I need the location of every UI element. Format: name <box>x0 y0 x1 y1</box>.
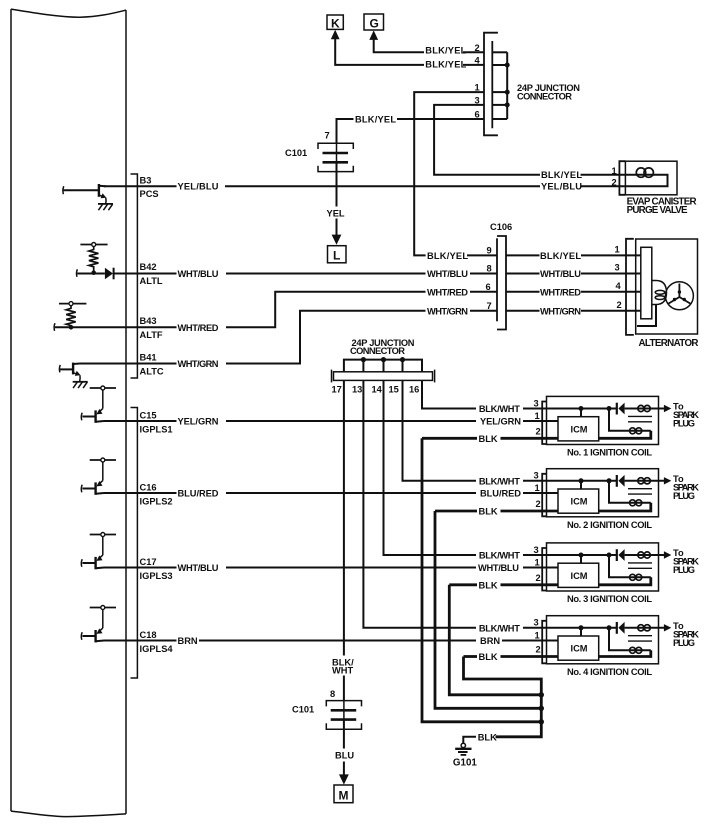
internal supply rail with node circle (B42 pull-up) <box>80 243 107 247</box>
label To SPARK PLUG (No.3) <box>673 548 699 575</box>
label To SPARK PLUG (No.1) <box>673 402 699 429</box>
svg-text:1: 1 <box>535 411 540 421</box>
svg-text:ICM: ICM <box>571 571 588 581</box>
svg-text:IGPLS2: IGPLS2 <box>140 497 173 507</box>
No.4 ignition coil box <box>547 616 659 664</box>
node junction dot (R2 to B43 row) <box>69 325 74 330</box>
wire BLK to ground G101 <box>463 732 497 743</box>
svg-text:C101: C101 <box>292 705 314 715</box>
diode D (No.2 coil) <box>617 475 625 487</box>
wire C18 BRN row (to No.4 coil pin 1) <box>104 636 558 646</box>
No.1 coil connector bracket <box>542 402 546 445</box>
svg-text:7: 7 <box>487 301 492 311</box>
wire to spark plug + arrow (No.2) <box>625 477 672 484</box>
wire C106 pin 7 to alternator pin 2 (WHT/GRN) <box>506 306 641 316</box>
junction dot (bus pin 1) <box>505 90 510 95</box>
svg-text:WHT/GRN: WHT/GRN <box>427 306 468 316</box>
svg-text:3: 3 <box>534 471 539 481</box>
wire junction pin 16 (down, BLK/WHT to No.1 coil pin 3) <box>422 380 476 408</box>
svg-text:M: M <box>339 789 349 803</box>
wire C106 pin 9 to alternator pin 1 (BLK/YEL) <box>506 251 641 261</box>
label To SPARK PLUG (No.4) <box>673 621 699 648</box>
svg-text:BLK: BLK <box>479 580 498 590</box>
wire B3 YEL/BLU row (to EVAP pin 2) <box>104 182 625 192</box>
wire junction pin 13 (down, BLK/WHT to No.4 coil pin 3) <box>363 380 476 627</box>
wire B43 WHT/RED (up and over to C106 pin 6) <box>137 287 497 333</box>
connector C106 outer half <box>497 236 506 330</box>
svg-text:IGPLS1: IGPLS1 <box>140 425 173 435</box>
wire G BLK/YEL (junction pin 2 to G) <box>374 37 484 56</box>
svg-text:BLU: BLU <box>335 751 354 761</box>
svg-text:YEL/GRN: YEL/GRN <box>480 417 521 427</box>
No.3 ignition coil box <box>547 543 659 591</box>
junction dot (bus, No.2 BLK) <box>539 706 544 711</box>
arrow into K <box>331 30 340 40</box>
label To SPARK PLUG (No.2) <box>673 474 699 501</box>
junction bus (top of bottom 24P connector) <box>344 360 422 372</box>
connector box K (to another sheet) <box>327 15 343 31</box>
svg-text:3: 3 <box>534 398 539 408</box>
alternator field coil (loops) <box>637 281 667 327</box>
svg-text:CONNECTOR: CONNECTOR <box>350 346 405 356</box>
No.4 coil connector bracket <box>542 621 546 664</box>
No.2 coil connector bracket <box>542 474 546 517</box>
ICM U2 (No.2 coil igniter) <box>558 489 599 513</box>
svg-text:ALTF: ALTF <box>140 330 163 340</box>
connector C101 (pin 8) symbol <box>326 701 361 730</box>
diode D (No.3 coil) <box>617 549 625 561</box>
wire junction pin 14 (down, BLK/WHT to No.3 coil pin 3) <box>384 380 477 555</box>
primary winding L1 (No.1 coil) <box>638 405 651 411</box>
svg-text:YEL/BLU: YEL/BLU <box>178 182 219 192</box>
ground symbol (inside ECM, at Q1 emitter) <box>98 204 113 210</box>
label EVAP CANISTER PURGE VALVE <box>627 197 697 217</box>
svg-text:G: G <box>370 17 379 31</box>
svg-text:2: 2 <box>617 300 622 310</box>
svg-text:2: 2 <box>536 645 541 655</box>
svg-text:2: 2 <box>612 177 617 187</box>
alternator box <box>636 239 698 334</box>
transistor Q1 (PCS driver, pin B3) <box>63 184 107 204</box>
pin B3 label <box>140 176 159 200</box>
svg-text:14: 14 <box>372 385 383 395</box>
secondary winding L2 (No.2 coil) <box>599 500 651 511</box>
internal supply rail with node circle (B43 pull-up) <box>59 302 86 306</box>
svg-text:PLUG: PLUG <box>673 491 695 501</box>
wire BLK No.2 coil pin 2 <box>435 507 558 517</box>
svg-text:15: 15 <box>389 385 399 395</box>
svg-text:YEL: YEL <box>327 209 345 219</box>
arrow into M <box>339 774 349 784</box>
svg-text:WHT/BLU: WHT/BLU <box>427 269 468 279</box>
svg-text:BLK: BLK <box>479 507 498 517</box>
svg-text:PURGE VALVE: PURGE VALVE <box>627 205 688 216</box>
wire C106 pin 8 to alternator pin 3 (WHT/BLU) <box>506 269 641 279</box>
wire BLK/WHT No.4 coil pin 3 <box>479 623 617 633</box>
wire BLK return No.1 coil (down to ground bus) <box>422 438 541 722</box>
svg-text:WHT/GRN: WHT/GRN <box>178 359 219 369</box>
svg-text:No. 3 IGNITION COIL: No. 3 IGNITION COIL <box>567 594 652 604</box>
diode D (No.4 coil) <box>617 622 625 634</box>
svg-text:YEL/BLU: YEL/BLU <box>541 182 582 192</box>
wire junction pin 6 (left, BLK/YEL to C101 pin 7) <box>337 115 485 144</box>
resistor R1 (ALTL pull-up) <box>89 247 99 273</box>
wire BLK No.4 coil pin 2 <box>464 652 559 662</box>
svg-text:PCS: PCS <box>140 189 159 199</box>
svg-text:BLK: BLK <box>479 434 498 444</box>
junction dot (bus stub 13) <box>361 357 366 362</box>
connector C101 (pin 7) symbol <box>318 143 353 171</box>
svg-text:ALTL: ALTL <box>140 276 163 286</box>
svg-text:WHT/RED: WHT/RED <box>540 287 581 297</box>
pin C18 label <box>140 630 174 654</box>
svg-text:2: 2 <box>536 499 541 509</box>
svg-text:C15: C15 <box>140 411 157 421</box>
junction internal bus (right side, pins 2-4-1-3-6 commoned) <box>492 52 507 119</box>
diode D (No.1 coil) <box>617 403 625 415</box>
svg-text:B3: B3 <box>140 176 152 186</box>
pin C17 label <box>140 557 173 581</box>
svg-text:BLU/RED: BLU/RED <box>178 489 219 499</box>
svg-text:3: 3 <box>615 263 620 273</box>
alternator internal regulator block <box>641 247 652 318</box>
wire to spark plug + arrow (No.3) <box>625 551 672 558</box>
wire YEL (C101 to L arrow) <box>327 162 345 235</box>
svg-text:No. 4 IGNITION COIL: No. 4 IGNITION COIL <box>567 667 652 677</box>
diode D1 (on B42/ALTL row) <box>105 268 114 280</box>
junction dot (bus pin 4) <box>505 63 510 68</box>
wire B42 row left tail with tick <box>76 269 104 277</box>
svg-text:ICM: ICM <box>571 424 588 434</box>
svg-text:IGPLS3: IGPLS3 <box>140 571 173 581</box>
pin B42 label <box>140 262 163 286</box>
ECM pin bracket (B-group B3..B41) <box>131 174 138 378</box>
svg-text:B41: B41 <box>140 352 157 362</box>
svg-text:K: K <box>331 17 340 31</box>
wire junction pin 17 (down, BLK/WHT to C101 pin 8) <box>332 380 354 700</box>
wire BLK/WHT No.2 coil pin 3 <box>479 476 617 486</box>
junction dot + primary/secondary common leg (No.2) <box>607 478 629 503</box>
pin B43 label <box>140 316 163 340</box>
svg-text:C101: C101 <box>285 148 307 158</box>
svg-text:17: 17 <box>332 385 342 395</box>
svg-text:BLK/WHT: BLK/WHT <box>479 404 520 414</box>
EVAP canister purge valve box <box>625 161 677 195</box>
wire K BLK/YEL (junction pin 4 to K) <box>335 36 484 70</box>
wire BLK/WHT No.3 coil pin 3 <box>479 551 617 561</box>
24P junction connector (top) inner half <box>491 41 493 128</box>
wire junction pin 1 (down-left, becomes BLK/YEL to C106 pin 9) <box>414 92 484 255</box>
svg-text:WHT/BLU: WHT/BLU <box>540 269 581 279</box>
wire B41 WHT/GRN (up and over to C106 pin 7) <box>80 306 497 369</box>
primary winding L1 (No.3 coil) <box>638 552 651 558</box>
connector C106 inner half <box>496 238 498 321</box>
primary winding L1 (No.2 coil) <box>638 478 651 484</box>
svg-text:C17: C17 <box>140 557 157 567</box>
svg-text:C106: C106 <box>490 222 512 232</box>
junction dot (bus stub 14) <box>381 357 386 362</box>
ECM pin bracket (C-group C15..C18) <box>131 408 138 679</box>
wire BLK return No.4 coil + ground bus <box>464 657 542 737</box>
junction dot + primary/secondary common leg (No.4) <box>607 625 629 650</box>
wire to spark plug + arrow (No.1) <box>625 405 672 412</box>
svg-text:BLK/WHT: BLK/WHT <box>479 551 520 561</box>
svg-text:8: 8 <box>487 264 492 274</box>
junction dot (bus, No.1 BLK) <box>539 719 544 724</box>
svg-text:BLK/WHT: BLK/WHT <box>479 623 520 633</box>
wire BLK return No.2 coil (down to ground bus) <box>435 511 541 708</box>
svg-text:No. 1 IGNITION COIL: No. 1 IGNITION COIL <box>567 448 652 458</box>
svg-text:CONNECTOR: CONNECTOR <box>517 92 572 102</box>
node junction dot (R1 to B42 row) <box>91 270 96 275</box>
alternator connector bracket <box>626 239 634 335</box>
svg-text:6: 6 <box>486 282 491 292</box>
wire BLK No.1 coil pin 2 <box>422 434 558 444</box>
connector box L (to another sheet) <box>328 246 347 263</box>
svg-text:9: 9 <box>487 245 492 255</box>
svg-text:BLK/YEL: BLK/YEL <box>541 170 582 180</box>
svg-text:IGPLS4: IGPLS4 <box>140 644 174 654</box>
svg-text:7: 7 <box>325 131 330 141</box>
svg-text:PLUG: PLUG <box>673 638 695 648</box>
svg-text:BLU/RED: BLU/RED <box>480 489 521 499</box>
svg-text:16: 16 <box>409 385 419 395</box>
svg-text:3: 3 <box>534 545 539 555</box>
pin C15 label <box>140 411 173 435</box>
wire C106 pin 6 to alternator pin 4 (WHT/RED) <box>506 287 641 297</box>
transistor Q3 (IGPLS1 driver, pin C15) <box>81 386 116 423</box>
svg-text:BRN: BRN <box>480 636 500 646</box>
wire junction pin 15 (down, BLK/WHT to No.2 coil pin 3) <box>403 380 477 480</box>
wire BLK/WHT No.1 coil pin 3 <box>479 404 617 414</box>
junction dot (bus, No.3 BLK) <box>539 692 544 697</box>
wire BLU (C101 to M arrow) <box>335 720 354 775</box>
svg-text:ICM: ICM <box>571 497 588 507</box>
junction dot + stub to ICM (No.4) <box>579 625 584 636</box>
core lines (No.3 coil) <box>628 563 652 568</box>
ground G101 symbol <box>455 743 471 755</box>
label 24P JUNCTION CONNECTOR (top) <box>517 83 580 102</box>
24P junction connector (top, vertical) outer half <box>484 33 498 136</box>
transistor Q2 (ALTC driver, pin B41) <box>59 363 80 382</box>
svg-text:WHT/RED: WHT/RED <box>427 287 468 297</box>
pin C16 label <box>140 483 173 507</box>
svg-text:BLK: BLK <box>478 732 497 742</box>
svg-text:ALTERNATOR: ALTERNATOR <box>639 338 699 349</box>
svg-text:8: 8 <box>330 689 335 699</box>
wire BLK No.3 coil pin 2 <box>449 580 558 590</box>
svg-text:2: 2 <box>475 43 480 53</box>
junction dot + primary/secondary common leg (No.1) <box>607 406 629 431</box>
svg-text:1: 1 <box>535 631 540 641</box>
junction dot (bus pin 3) <box>505 102 510 107</box>
transistor Q6 (IGPLS4 driver, pin C18) <box>81 606 116 643</box>
svg-text:BLK/YEL: BLK/YEL <box>425 60 466 70</box>
svg-text:WHT/BLU: WHT/BLU <box>178 563 219 573</box>
EVAP valve connector bracket <box>619 161 625 195</box>
svg-text:YEL/GRN: YEL/GRN <box>178 417 219 427</box>
svg-text:1: 1 <box>615 244 620 254</box>
No.2 ignition coil box <box>547 469 659 517</box>
svg-text:No. 2 IGNITION COIL: No. 2 IGNITION COIL <box>567 520 652 530</box>
junction dot + primary/secondary common leg (No.3) <box>607 553 629 578</box>
junction dot + stub to ICM (No.1) <box>579 406 584 417</box>
svg-text:G101: G101 <box>453 758 478 769</box>
svg-text:13: 13 <box>352 385 362 395</box>
svg-text:BLK/WHT: BLK/WHT <box>479 476 520 486</box>
wire B42 WHT/BLU row (to C106 pin 8) <box>114 269 497 279</box>
wire C15 YEL/GRN row (to No.1 coil pin 1) <box>104 417 558 427</box>
svg-text:4: 4 <box>475 55 481 65</box>
ICM U4 (No.4 coil igniter) <box>558 636 599 660</box>
svg-text:PLUG: PLUG <box>673 419 695 429</box>
svg-text:1: 1 <box>535 483 540 493</box>
svg-text:ICM: ICM <box>571 644 588 654</box>
junction dot (bus stub 15) <box>400 357 405 362</box>
junction dot + stub to ICM (No.2) <box>579 478 584 489</box>
svg-text:B43: B43 <box>140 316 157 326</box>
svg-text:WHT/BLU: WHT/BLU <box>478 563 519 573</box>
No.1 ignition coil box <box>547 396 659 444</box>
wire B43 row left tail with tick <box>54 323 137 331</box>
wire C16 BLU/RED row (to No.2 coil pin 1) <box>104 489 558 499</box>
wire C17 WHT/BLU row (to No.3 coil pin 1) <box>104 563 558 573</box>
ICM U3 (No.3 coil igniter) <box>558 563 599 587</box>
svg-text:4: 4 <box>616 281 622 291</box>
secondary winding L2 (No.3 coil) <box>599 574 651 585</box>
wire BLK/YEL to EVAP pin 1 <box>581 174 626 176</box>
svg-text:C18: C18 <box>140 630 157 640</box>
transistor Q5 (IGPLS3 driver, pin C17) <box>81 533 116 570</box>
24P junction connector bar (bottom, horizontal) <box>332 370 435 383</box>
EVAP solenoid coil winding <box>625 168 667 186</box>
connector box G (to another sheet) <box>364 14 384 31</box>
svg-text:WHT/RED: WHT/RED <box>178 323 219 333</box>
svg-text:BLK/YEL: BLK/YEL <box>540 251 581 261</box>
secondary winding L2 (No.1 coil) <box>599 428 651 439</box>
ECM/PCM module outline (torn-edge box) <box>11 9 126 817</box>
secondary winding L2 (No.4 coil) <box>599 647 651 656</box>
ICM U1 (No.1 coil igniter) <box>558 417 599 441</box>
core lines (No.4 coil) <box>628 636 652 641</box>
wire BLK/YEL into C106 pin 9 <box>467 254 497 256</box>
connector box M (to another sheet) <box>334 785 353 803</box>
svg-text:WHT: WHT <box>332 665 353 675</box>
junction dot + stub to ICM (No.3) <box>579 553 584 564</box>
arrow into L <box>332 235 342 245</box>
ground symbol (inside ECM, at Q2 emitter) <box>73 382 88 388</box>
svg-text:PLUG: PLUG <box>673 565 695 575</box>
resistor R2 (ALTF pull-up) <box>66 306 76 328</box>
label 24P JUNCTION CONNECTOR (bottom) <box>350 338 415 356</box>
svg-text:BLK/YEL: BLK/YEL <box>355 115 396 125</box>
svg-text:ALTC: ALTC <box>140 366 164 376</box>
arrow into G <box>369 30 378 40</box>
primary winding L1 (No.4 coil) <box>638 625 651 631</box>
svg-text:BRN: BRN <box>178 636 198 646</box>
svg-text:B42: B42 <box>140 262 157 272</box>
svg-text:1: 1 <box>535 558 540 568</box>
svg-text:2: 2 <box>536 426 541 436</box>
svg-text:L: L <box>333 249 340 263</box>
alternator generator circle (3-phase) <box>665 282 693 310</box>
svg-text:C16: C16 <box>140 483 157 493</box>
svg-text:BLK: BLK <box>479 652 498 662</box>
svg-text:1: 1 <box>612 166 617 176</box>
core lines (No.2 coil) <box>628 489 652 494</box>
svg-text:WHT/GRN: WHT/GRN <box>540 306 581 316</box>
wire junction pin 3 (down-left, becomes BLK/YEL to EVAP pin 1) <box>434 105 540 175</box>
core lines (No.1 coil) <box>628 416 652 421</box>
pin B41 label <box>140 352 164 376</box>
wire BLK return No.3 coil (down to ground bus) <box>449 585 541 695</box>
wire to spark plug + arrow (No.4) <box>625 624 672 631</box>
transistor Q4 (IGPLS2 driver, pin C16) <box>81 458 116 495</box>
svg-text:2: 2 <box>536 573 541 583</box>
svg-text:BLK/YEL: BLK/YEL <box>425 46 466 56</box>
svg-text:BLK/YEL: BLK/YEL <box>427 251 468 261</box>
svg-text:WHT/BLU: WHT/BLU <box>178 269 219 279</box>
svg-text:3: 3 <box>534 618 539 628</box>
No.3 coil connector bracket <box>542 548 546 591</box>
